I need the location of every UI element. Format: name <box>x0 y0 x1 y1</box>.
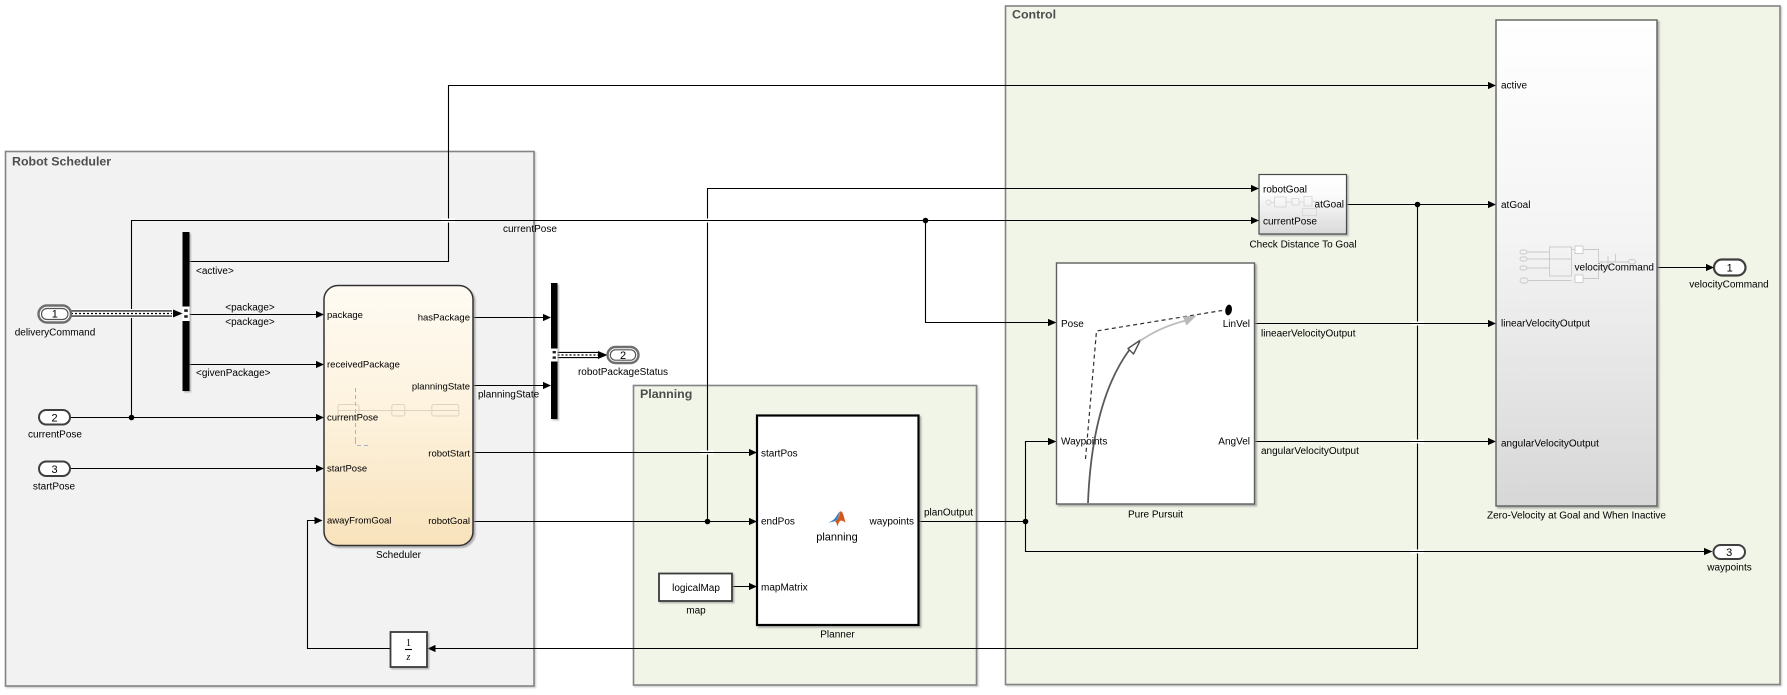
bus creator bar <box>551 283 558 419</box>
port deliveryCommand <box>15 306 96 339</box>
svg-text:currentPose: currentPose <box>28 430 82 441</box>
svg-text:<givenPackage>: <givenPackage> <box>196 368 271 379</box>
junction currentPose split at port2 branch <box>129 415 135 421</box>
wire logicalMap to mapMatrix <box>732 583 757 590</box>
wire angularVelocityOutput <box>1255 438 1497 457</box>
svg-text:Waypoints: Waypoints <box>1061 437 1107 448</box>
svg-text:lineaerVelocityOutput: lineaerVelocityOutput <box>1261 329 1356 340</box>
block Zero-Velocity at Goal and When Inactive <box>1487 20 1666 522</box>
svg-text:1: 1 <box>406 638 411 649</box>
svg-text:endPos: endPos <box>761 517 795 528</box>
block unit delay 1/z <box>391 632 428 667</box>
wire currentPose trunk <box>70 217 1259 421</box>
port velocityCommand <box>1689 260 1768 291</box>
wire startPose <box>70 465 324 472</box>
svg-text:planningState: planningState <box>478 390 540 401</box>
svg-text:Scheduler: Scheduler <box>376 550 422 561</box>
svg-text:Zero-Velocity at Goal and When: Zero-Velocity at Goal and When Inactive <box>1487 511 1666 522</box>
svg-text:robotPackageStatus: robotPackageStatus <box>578 367 668 378</box>
svg-text:deliveryCommand: deliveryCommand <box>15 328 96 339</box>
svg-text:waypoints: waypoints <box>869 517 914 528</box>
junction atGoal split <box>1415 202 1421 208</box>
svg-text:logicalMap: logicalMap <box>672 583 720 594</box>
svg-text:Planner: Planner <box>820 630 855 641</box>
svg-text:robotGoal: robotGoal <box>1263 185 1307 196</box>
svg-text:velocityCommand: velocityCommand <box>1575 263 1654 274</box>
block Planner <box>757 416 919 641</box>
svg-text:angularVelocityOutput: angularVelocityOutput <box>1261 446 1359 457</box>
svg-text:Planning: Planning <box>640 387 692 401</box>
svg-text:Pure Pursuit: Pure Pursuit <box>1128 510 1183 521</box>
svg-text:3: 3 <box>51 464 57 476</box>
wire waypoints branch <box>1026 438 1713 555</box>
svg-text:planOutput: planOutput <box>924 508 973 519</box>
wire givenPackage <box>190 361 325 379</box>
svg-text:2: 2 <box>51 413 57 425</box>
svg-text:linearVelocityOutput: linearVelocityOutput <box>1501 319 1590 330</box>
svg-text:velocityCommand: velocityCommand <box>1689 280 1768 291</box>
svg-text:Pose: Pose <box>1061 319 1084 330</box>
svg-text:mapMatrix: mapMatrix <box>761 583 808 594</box>
wire robotPackageStatus bus <box>558 351 608 359</box>
block Pure Pursuit <box>1057 263 1255 521</box>
svg-text:robotStart: robotStart <box>428 449 470 460</box>
svg-text:planning: planning <box>816 532 858 544</box>
svg-text:Check Distance To Goal: Check Distance To Goal <box>1249 240 1356 251</box>
chart Scheduler <box>324 286 473 562</box>
svg-text:currentPose: currentPose <box>327 413 378 424</box>
wire planningState <box>473 382 551 401</box>
svg-text:AngVel: AngVel <box>1218 437 1250 448</box>
bus selector bar <box>183 232 190 391</box>
svg-text:package: package <box>327 310 363 321</box>
svg-text:angularVelocityOutput: angularVelocityOutput <box>1501 439 1599 450</box>
wire robotGoal <box>473 185 1259 525</box>
wire planOutput <box>919 508 1026 522</box>
svg-text:<package>: <package> <box>225 317 275 328</box>
wire atGoal <box>428 201 1497 652</box>
port startPose <box>33 462 76 493</box>
svg-text:awayFromGoal: awayFromGoal <box>327 516 391 527</box>
port waypoints <box>1706 545 1751 574</box>
junction planOutput split <box>1023 519 1029 525</box>
svg-text:startPos: startPos <box>761 449 798 460</box>
svg-text:startPose: startPose <box>327 464 367 475</box>
svg-text:robotGoal: robotGoal <box>428 516 470 527</box>
svg-text:atGoal: atGoal <box>1501 200 1530 211</box>
junction currentPose split to Pose <box>923 218 929 224</box>
svg-text:z: z <box>406 652 411 663</box>
wire deliveryCommand bus <box>71 310 183 318</box>
svg-text:2: 2 <box>620 350 626 362</box>
svg-text:map: map <box>686 606 706 617</box>
svg-text:currentPose: currentPose <box>503 224 557 235</box>
port currentPose <box>28 410 82 441</box>
wire velocityCommand <box>1657 264 1714 271</box>
svg-text:active: active <box>1501 81 1528 92</box>
wire linearVelocityOutput <box>1255 320 1497 340</box>
wire hasPackage <box>473 314 551 321</box>
svg-text:3: 3 <box>1726 547 1732 559</box>
svg-text:hasPackage: hasPackage <box>418 313 470 324</box>
wire active <box>190 82 1497 277</box>
area Control <box>1006 6 1781 685</box>
block logicalMap <box>659 574 732 617</box>
svg-text:Control: Control <box>1012 8 1056 22</box>
svg-text:1: 1 <box>1727 263 1733 275</box>
svg-text:<package>: <package> <box>225 303 275 314</box>
port robotPackageStatus <box>578 347 668 378</box>
svg-text:currentPose: currentPose <box>1263 217 1317 228</box>
wire package <box>190 303 325 329</box>
svg-text:LinVel: LinVel <box>1223 319 1250 330</box>
junction robotGoal split <box>705 519 711 525</box>
wire awayFromGoal loop <box>308 517 391 649</box>
wire robotStart <box>473 449 757 456</box>
svg-text:atGoal: atGoal <box>1315 200 1344 211</box>
svg-text:Robot Scheduler: Robot Scheduler <box>12 155 111 169</box>
svg-text:1: 1 <box>52 309 58 321</box>
svg-text:receivedPackage: receivedPackage <box>327 360 400 371</box>
block Check Distance To Goal <box>1249 175 1356 251</box>
area Robot Scheduler <box>6 152 535 687</box>
svg-text:startPose: startPose <box>33 482 76 493</box>
svg-text:<active>: <active> <box>196 266 234 277</box>
svg-text:waypoints: waypoints <box>1706 563 1751 574</box>
area Planning <box>634 386 977 686</box>
svg-text:planningState: planningState <box>412 382 470 393</box>
